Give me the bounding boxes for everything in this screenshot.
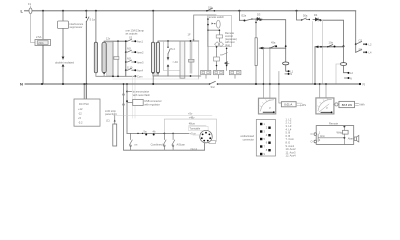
switch Aux1 — [128, 39, 132, 41]
svg-text:Item2: Item2 — [137, 50, 144, 54]
fuse F1 — [30, 6, 32, 14]
wire tap line A — [112, 41, 114, 75]
lamp ellipse left — [283, 62, 289, 65]
pin header box — [256, 120, 275, 157]
wire annunciator drops — [124, 84, 128, 133]
lamp ellipse — [340, 63, 346, 66]
svg-text:(C): (C) — [106, 119, 110, 123]
svg-text:-5.2: -5.2 — [78, 121, 83, 125]
svg-text:E2a: E2a — [242, 13, 247, 17]
wire into digital right — [334, 103, 339, 105]
svg-text:+5v: +5v — [188, 111, 193, 115]
wire block stubs down — [206, 75, 235, 79]
wire 343 down to lamp — [343, 46, 345, 62]
svg-text:O: O — [311, 140, 313, 144]
svg-text:S1c: S1c — [211, 85, 216, 89]
svg-text:≈ AC: ≈ AC — [173, 60, 179, 64]
wire TR1 secondary top — [104, 40, 127, 42]
svg-text:-12: -12 — [78, 112, 82, 116]
remote bottom box — [316, 126, 354, 145]
wire tap bus — [125, 41, 127, 76]
digital meter right — [339, 101, 355, 107]
meter V right box — [316, 98, 334, 114]
wire L rail top — [25, 10, 356, 12]
internal wires — [318, 134, 344, 141]
terminal block 3 — [229, 70, 241, 74]
wire resistor drop — [255, 19, 257, 38]
svg-text:as outputs: as outputs — [126, 31, 139, 35]
LED bar — [113, 124, 117, 146]
svg-text:N: N — [290, 72, 292, 76]
node TR2 tap — [167, 40, 169, 42]
wire T1 bottom drop — [42, 46, 44, 85]
svg-text:+12: +12 — [78, 107, 83, 111]
svg-text:D4: D4 — [314, 13, 318, 17]
terminal circles left — [314, 133, 317, 136]
svg-text:( 1Ps: ( 1Ps — [300, 103, 307, 107]
svg-text:+48v: +48v — [189, 116, 195, 120]
dropper resistor tall — [180, 41, 185, 78]
svg-text:3cm: 3cm — [320, 134, 325, 138]
wire 256 bottom — [255, 66, 257, 85]
turntable label box — [189, 126, 208, 130]
DIN pins — [205, 132, 207, 134]
switch S1 — [86, 11, 89, 22]
wire TR2 secondary top — [158, 41, 199, 42]
svg-text:S 2: S 2 — [171, 47, 175, 51]
svg-text:Aux4: Aux4 — [137, 69, 143, 73]
svg-text:S 1a: S 1a — [90, 18, 96, 22]
node junction top rail right2 — [296, 10, 298, 12]
svg-text:50a: 50a — [303, 13, 308, 17]
node tap row3 — [125, 61, 127, 63]
switch S mains on top rail — [207, 8, 213, 11]
wire primary drop — [95, 11, 97, 43]
svg-text:1F: 1F — [188, 32, 191, 36]
wire mid bus — [127, 132, 189, 134]
wire digital feed — [279, 72, 282, 104]
node junction xfmr primary — [95, 10, 97, 12]
svg-text:N: N — [20, 82, 23, 87]
svg-text:O: O — [311, 132, 313, 136]
wire remote drop 2 — [216, 47, 218, 71]
svg-text:suppressor: suppressor — [70, 25, 83, 29]
switch on N rail — [210, 81, 216, 84]
wire label leader A — [115, 115, 212, 117]
wire label leader C — [189, 124, 206, 126]
svg-text:S2: S2 — [129, 36, 133, 40]
terminal block 1 — [201, 70, 211, 74]
svg-text:Alarm: Alarm — [348, 137, 355, 141]
svg-text:Com: Com — [137, 75, 142, 79]
svg-text:NO: NO — [127, 57, 131, 61]
svg-text:2.5A: 2.5A — [36, 35, 42, 39]
switch lower remote — [220, 53, 227, 55]
wire meter feeds right — [320, 84, 326, 98]
wire bottom bus — [124, 116, 205, 150]
transformer TR2 winding S — [156, 42, 159, 73]
node junction T1 — [42, 10, 44, 12]
wire meter drops from feed — [263, 48, 270, 98]
node rail dots meter — [263, 83, 265, 85]
wire S1 drop — [85, 22, 87, 99]
wire remote feed — [194, 15, 216, 41]
node switch CS — [355, 43, 357, 45]
svg-text:kWh: kWh — [360, 103, 366, 107]
DIN keyway box — [209, 141, 216, 144]
node junction 343 — [343, 45, 345, 47]
small box in remote — [216, 35, 222, 38]
tap annunciator — [126, 91, 128, 93]
filter box — [58, 21, 69, 29]
node tap row4 — [125, 69, 127, 71]
svg-text:with regulator: with regulator — [144, 102, 160, 106]
arrow feed wire left meters — [259, 47, 286, 49]
svg-text:Item3: Item3 — [137, 60, 144, 64]
svg-text:connector: connector — [243, 137, 255, 141]
svg-text:45a: 45a — [271, 40, 276, 44]
wire remote internals — [208, 19, 219, 42]
wire right enclosure line — [198, 41, 200, 79]
wire lamp down — [344, 65, 348, 72]
pin squares left col — [260, 123, 262, 125]
small box lower remote — [214, 57, 220, 61]
wire below arrows — [62, 67, 64, 84]
transformer TR1 winding P — [94, 42, 97, 73]
svg-text:230v: 230v — [38, 41, 44, 45]
wire TR1 bottom row Com — [96, 73, 134, 77]
switch panel 1 — [129, 133, 132, 149]
svg-text:...: ... — [189, 37, 191, 40]
node TR2 right top — [190, 40, 192, 42]
transformer TR1 winding S — [102, 42, 106, 73]
svg-text:12. Aux4: 12. Aux4 — [286, 154, 297, 158]
svg-text:NO: NO — [127, 47, 131, 51]
svg-text:Aux1: Aux1 — [137, 40, 143, 44]
node N junctions — [41, 83, 43, 85]
enclosure outline TR2 tap — [164, 42, 181, 71]
switch in tap — [168, 41, 170, 54]
node junction TR2 feed — [152, 10, 154, 12]
svg-text:48cm: 48cm — [189, 122, 195, 126]
wire label leader B with right enclosure — [164, 119, 216, 141]
dashes right — [356, 103, 359, 105]
digital meter left — [281, 102, 296, 107]
tall resistor 256 — [255, 38, 257, 66]
wire filter drop — [62, 11, 64, 21]
lamp bar light — [190, 41, 193, 72]
resistor on tap B — [114, 57, 119, 60]
node junction S1 — [85, 10, 87, 12]
node tap row2 — [125, 51, 127, 53]
wire N rail — [25, 83, 360, 85]
svg-text:remote switch: remote switch — [208, 15, 225, 19]
terminal circle between — [335, 103, 338, 106]
wire tap bottom — [167, 67, 169, 76]
wire remote drop 3 — [226, 48, 228, 70]
wire remote drop 1 — [207, 30, 209, 70]
tap USB — [126, 100, 128, 102]
wire light drop pair to bottom box — [133, 76, 136, 118]
diode lower remote — [225, 62, 230, 65]
resistor small on lamp bar — [189, 59, 195, 62]
svg-text:with neon flash: with neon flash — [133, 93, 151, 97]
svg-text:0.01 A: 0.01 A — [284, 103, 292, 107]
wire light band — [113, 78, 199, 80]
wire tap line B with resistor — [117, 41, 119, 75]
svg-text:10a: 10a — [329, 41, 334, 45]
node junction filter — [62, 10, 64, 12]
wire corner right2 — [297, 11, 302, 20]
svg-text:plug: plug — [225, 43, 230, 47]
svg-text:S1b: S1b — [208, 6, 213, 10]
svg-text:A/Scan: A/Scan — [177, 142, 186, 146]
transformer TR2 core panel — [154, 43, 156, 76]
wire light drop 322 — [322, 20, 324, 84]
insulation break arrows 2 — [167, 57, 170, 59]
svg-text:V: V — [326, 106, 328, 110]
svg-text:V: V — [269, 106, 271, 110]
svg-text:Combined: Combined — [151, 142, 163, 146]
wire lamp left branch — [336, 64, 340, 84]
switch panel 3 — [172, 133, 175, 149]
terminal N below — [345, 77, 348, 79]
wire TR2 bottom bus — [153, 73, 201, 76]
wire T1 drop — [42, 11, 44, 40]
wire tap mid — [167, 54, 169, 60]
svg-text:Remote: Remote — [329, 122, 339, 126]
transformer TR2 winding P — [151, 42, 154, 73]
svg-text:Turntable: Turntable — [189, 127, 200, 131]
svg-text:12v: 12v — [106, 36, 111, 40]
DC PSU box — [74, 99, 100, 126]
node tap Aux1 — [125, 40, 127, 42]
wire E2a row start — [239, 19, 244, 21]
svg-text:88.8 kW: 88.8 kW — [342, 103, 353, 107]
node N terminal — [359, 83, 361, 85]
svg-text:double insulated: double insulated — [55, 61, 74, 65]
wire TR2 primary drop — [152, 11, 154, 42]
wire to corner 343 — [320, 20, 343, 46]
remote receiver box — [208, 16, 232, 47]
diamonds — [215, 42, 220, 47]
wire dark drop 315 — [314, 47, 316, 84]
wire light drop 312 — [312, 22, 314, 85]
wire to corner — [261, 20, 286, 62]
wire drop corner to E row — [238, 11, 240, 20]
wire PSU feeds — [84, 84, 86, 99]
svg-text:D3: D3 — [257, 13, 261, 17]
coil capsule — [216, 20, 220, 28]
transformer T1 label box — [35, 40, 51, 46]
svg-text:DC PSU: DC PSU — [79, 102, 89, 106]
transformer TR1 core panel — [106, 43, 113, 76]
svg-text:N: N — [350, 76, 352, 80]
wire filter lower — [62, 29, 64, 60]
meter V left box — [259, 98, 276, 114]
arrow feed wire — [315, 46, 344, 48]
wire DIN left — [193, 134, 200, 136]
svg-text:Out 4: Out 4 — [191, 147, 198, 151]
pin squares right col — [268, 127, 270, 129]
node junction top rail right1 — [238, 10, 240, 12]
wire LED bar top — [114, 116, 116, 125]
wire fuse drop — [31, 14, 36, 43]
wire TR2 to N rail — [152, 76, 154, 84]
DIN socket circle — [200, 130, 212, 142]
svg-text:Whip: Whip — [337, 130, 343, 134]
insulation break arrows — [62, 57, 65, 60]
wires digital right — [296, 103, 302, 106]
wire top rail corner down — [355, 11, 357, 53]
switch panel 2 — [163, 133, 166, 149]
terminal block 2 — [214, 70, 224, 74]
